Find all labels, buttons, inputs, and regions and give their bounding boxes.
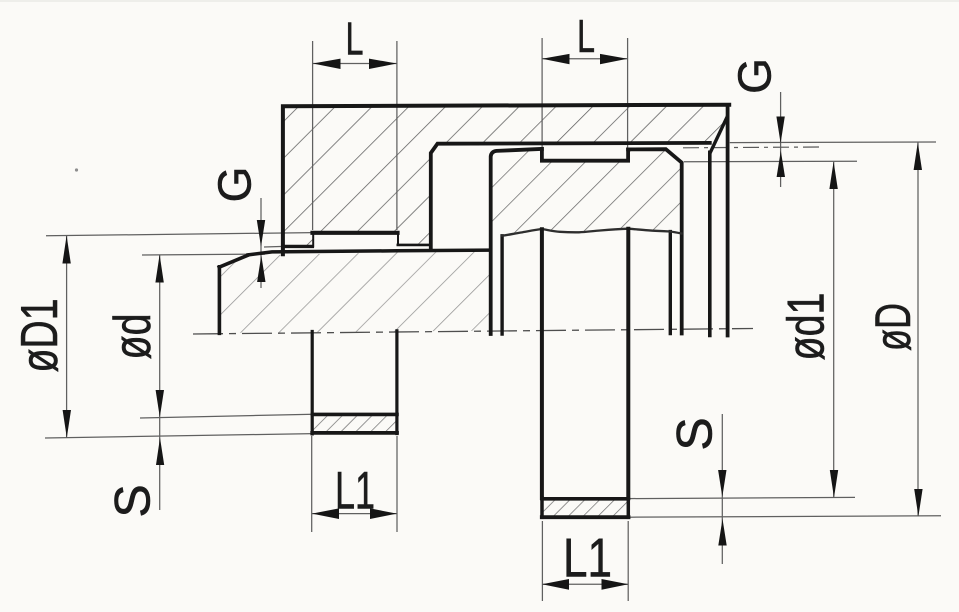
L1 left extension line a (311, 436, 313, 532)
svg-text:øD: øD (865, 303, 921, 351)
svg-text:G: G (729, 58, 781, 94)
wavy elastomer break line (502, 229, 681, 236)
svg-text:ød: ød (104, 314, 162, 360)
S left (rotated) (105, 484, 161, 517)
seal U1 hatched head (492, 149, 682, 236)
tube top extension (od) (142, 253, 265, 256)
housing face ext right (oD) (730, 141, 936, 144)
right sleeve right wall (626, 229, 630, 498)
right band bottom edge (542, 515, 629, 519)
shaft end chamfer (219, 255, 247, 267)
G left (rotated) (209, 167, 261, 203)
svg-text:L: L (346, 13, 364, 65)
band top ext left (od) (140, 414, 314, 418)
oD arrowhead top (914, 142, 922, 170)
band bottom ext right (oD) (629, 516, 941, 517)
S right (rotated) (667, 417, 723, 450)
od arrowhead top (155, 255, 163, 283)
band top ext right (od1) (629, 497, 855, 498)
housing bore entry chamfer (710, 117, 727, 153)
seal cap top notch (542, 149, 628, 161)
svg-text:øD1: øD1 (11, 299, 69, 373)
L1 left arrowhead right (370, 508, 397, 519)
od1 dim vertical (833, 162, 835, 498)
right sleeve cross-section band (543, 500, 628, 516)
oD arrowhead bottom (914, 489, 922, 516)
L right arrowhead left (542, 54, 570, 64)
housing outer right edge (726, 107, 730, 336)
L1 right dim line (542, 583, 628, 585)
S right dim vertical (721, 414, 723, 564)
G right arrowhead upper (776, 117, 784, 144)
G left arrowhead upper (257, 220, 265, 247)
G left dim vertical (260, 198, 262, 288)
S right arrowhead upper (718, 470, 726, 497)
right band top edge (542, 497, 628, 501)
od1 arrowhead bottom (830, 470, 838, 498)
G right dim vertical (780, 92, 782, 187)
oD right (rotated) (865, 303, 921, 351)
housing bore wall right (708, 152, 712, 335)
L left extension line b (396, 41, 398, 230)
svg-text:L: L (577, 10, 595, 62)
seal cap inner right wall (669, 232, 672, 334)
groove left wall (312, 233, 314, 246)
L1 right extension line a (541, 521, 543, 601)
seal cap outer left wall and top corner (491, 149, 542, 334)
speck (75, 168, 78, 171)
L left arrowhead right (369, 59, 397, 69)
od + S dim vertical (159, 255, 161, 510)
housing face ext for G left (264, 245, 284, 248)
oD1 left (rotated) (11, 299, 69, 373)
L right arrowhead right (600, 54, 628, 64)
shaft end face (218, 267, 222, 334)
right sleeve left wall (540, 229, 544, 498)
left band top edge (312, 413, 397, 417)
housing inner step wall and upper bore face (431, 143, 710, 250)
housing left edge and top edge (283, 105, 729, 255)
seal cap inner left wall (500, 236, 503, 334)
shaft top surface (248, 250, 490, 255)
L1 left extension line b (396, 436, 398, 532)
oD1 arrowhead bottom (63, 410, 71, 438)
svg-text:S: S (105, 484, 161, 517)
housing hatched area (283, 105, 729, 247)
oD1 dim vertical (66, 236, 68, 438)
svg-text:G: G (209, 167, 261, 203)
notch bottom ext right (od1) (684, 160, 857, 163)
oD1 arrowhead top (62, 236, 70, 264)
S left lower arrow (156, 438, 164, 465)
od1 right (rotated) (778, 293, 836, 361)
housing bore face left of groove (283, 245, 312, 248)
scan artifact top edge (0, 0, 959, 2)
oD dim vertical (917, 142, 919, 516)
centerline (dash-dot) (193, 329, 753, 335)
left sleeve cross-section band (314, 416, 397, 432)
left sleeve right wall (395, 331, 398, 434)
L1 left dim line (312, 513, 397, 515)
L1 right extension line b (627, 521, 629, 601)
L left dim line (313, 63, 397, 65)
od left (rotated) (104, 314, 162, 360)
L right dim line (542, 58, 628, 60)
svg-text:ød1: ød1 (778, 293, 836, 361)
right band right edge (627, 498, 631, 517)
seam dash-dot right (683, 146, 822, 149)
svg-text:S: S (667, 417, 723, 450)
left sleeve left wall (311, 332, 314, 434)
L1 left arrowhead left (312, 508, 339, 519)
od1 arrowhead top (829, 162, 837, 189)
G left arrowhead lower (257, 255, 265, 282)
L left arrowhead left (313, 59, 341, 69)
groove top / seal ring top edge (313, 231, 398, 235)
L right extension line a (541, 38, 543, 148)
L right extension line b (627, 38, 629, 148)
L1 right arrowhead left (542, 579, 569, 590)
svg-text:L1: L1 (335, 462, 375, 521)
L left extension line a (312, 41, 314, 230)
seal top extension (oD1) (46, 233, 313, 236)
groove right wall (397, 233, 399, 245)
housing bore face right of groove (398, 244, 430, 247)
G top right (rotated) (729, 58, 781, 94)
shaft/tube hatched area (221, 250, 490, 333)
G right arrowhead lower (777, 151, 785, 177)
left band bottom edge (312, 431, 397, 435)
S right arrowhead lower (718, 519, 726, 546)
right band left edge (540, 498, 544, 517)
band bottom ext left (oD1) (45, 434, 314, 438)
svg-text:L1: L1 (563, 527, 612, 589)
L1 right arrowhead right (602, 579, 629, 590)
od arrowhead bottom, shared with S left upper (156, 390, 164, 417)
seal cap top face, right chamfer and outer right wall (628, 149, 682, 333)
